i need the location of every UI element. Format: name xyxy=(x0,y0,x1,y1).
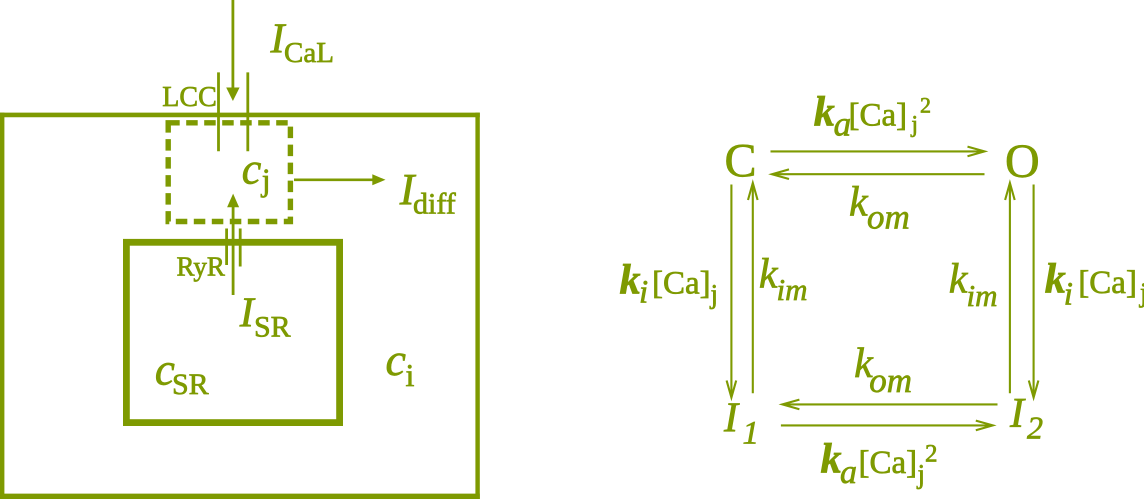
SR release arrow shaft xyxy=(232,207,235,296)
svg-text:k: k xyxy=(620,258,641,304)
svg-text:[Ca]: [Ca] xyxy=(1078,265,1137,301)
svg-text:k: k xyxy=(821,437,842,483)
svg-text:k: k xyxy=(1045,257,1066,303)
RyR channel line left xyxy=(225,229,228,266)
svg-text:j: j xyxy=(917,459,926,489)
ICaL arrow shaft xyxy=(231,0,234,88)
O to C arrow (top, leftwards) xyxy=(773,173,985,175)
outer cytosol box right edge xyxy=(475,113,479,499)
I2 to O arrow (right, upwards) xyxy=(1009,184,1011,393)
C to I1 arrow (left, downwards) xyxy=(730,185,732,397)
dashed junction box xyxy=(168,123,290,222)
I2 to I1 arrow (bottom, leftwards) xyxy=(783,403,997,405)
Idiff arrowhead xyxy=(372,174,385,185)
ICaL arrowhead xyxy=(226,88,239,102)
svg-text:2: 2 xyxy=(925,441,938,468)
Idiff arrow shaft xyxy=(294,179,373,182)
svg-text:im: im xyxy=(967,278,998,313)
svg-text:c: c xyxy=(242,144,262,193)
svg-text:j: j xyxy=(910,112,918,138)
svg-text:j: j xyxy=(1139,277,1144,307)
svg-text:j: j xyxy=(710,279,719,309)
RyR channel line right xyxy=(239,229,242,267)
I1 to I2 arrow (bottom, rightwards) xyxy=(781,424,992,426)
outer cytosol box bottom edge xyxy=(0,494,480,499)
svg-text:2: 2 xyxy=(920,92,931,117)
svg-text:diff: diff xyxy=(413,188,456,221)
svg-text:[Ca]: [Ca] xyxy=(849,98,908,134)
I1 to C arrow (left, upwards) xyxy=(752,184,754,393)
svg-text:a: a xyxy=(840,454,857,491)
svg-text:LCC: LCC xyxy=(162,82,216,113)
SR release arrowhead xyxy=(227,194,239,208)
svg-text:RyR: RyR xyxy=(177,251,225,281)
svg-text:om: om xyxy=(869,361,912,400)
svg-text:[Ca]: [Ca] xyxy=(652,265,711,301)
O to I2 arrow (right, downwards) xyxy=(1033,185,1035,397)
SR box xyxy=(126,242,339,422)
svg-text:I: I xyxy=(1009,391,1026,437)
svg-text:om: om xyxy=(867,197,910,236)
outer cytosol box top edge xyxy=(0,113,480,118)
svg-text:i: i xyxy=(1064,276,1073,312)
svg-text:k: k xyxy=(814,90,835,136)
LCC channel line left xyxy=(217,72,220,151)
svg-text:2: 2 xyxy=(1027,410,1043,446)
svg-text:C: C xyxy=(725,134,757,187)
svg-text:k: k xyxy=(849,179,869,225)
svg-text:c: c xyxy=(386,334,406,385)
svg-text:i: i xyxy=(406,357,415,393)
svg-text:j: j xyxy=(261,162,271,198)
svg-text:CaL: CaL xyxy=(284,37,334,69)
svg-text:SR: SR xyxy=(254,311,291,344)
svg-text:[Ca]: [Ca] xyxy=(859,445,918,481)
svg-text:im: im xyxy=(777,272,808,307)
svg-text:I: I xyxy=(723,395,740,441)
outer cytosol box left edge xyxy=(0,113,4,499)
svg-text:i: i xyxy=(639,274,648,310)
LCC channel line right xyxy=(246,72,249,151)
svg-text:O: O xyxy=(1005,135,1040,188)
svg-text:SR: SR xyxy=(172,368,209,401)
svg-text:1: 1 xyxy=(743,415,760,451)
C to O arrow (top, rightwards) xyxy=(771,150,984,152)
